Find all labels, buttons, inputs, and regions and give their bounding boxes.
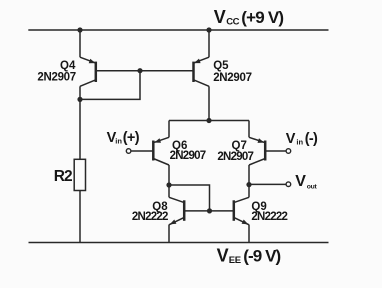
svg-text:2N2907: 2N2907 — [213, 72, 251, 84]
wire Q8 base to Q9 base — [184, 210, 234, 212]
svg-text:in: in — [296, 137, 303, 146]
wire Q5 emitter to VCC — [208, 30, 210, 57]
label Vout — [295, 173, 317, 190]
wire Q5 collector down — [208, 86, 210, 120]
svg-text:(-): (-) — [305, 131, 318, 147]
svg-text:(-9 V): (-9 V) — [243, 247, 280, 266]
node Q7/Q9 collector junction — [246, 182, 251, 187]
resistor R2 — [74, 159, 85, 190]
wire Q4 base to Q5 base — [96, 70, 194, 72]
wire Q7 collector down — [248, 165, 250, 197]
svg-text:CC: CC — [226, 17, 239, 28]
node Q6/Q8 collector junction — [166, 182, 171, 187]
wire tail current rail to Q6 and Q7 emitters — [169, 120, 249, 122]
svg-text:2N2222: 2N2222 — [251, 211, 287, 223]
transistor Q4 (PNP 2N2907) — [80, 57, 96, 86]
svg-text:EE: EE — [229, 255, 241, 266]
terminal Vin- open circle — [286, 149, 291, 154]
label VCC (+9 V) — [214, 7, 284, 28]
wire Q9 emitter to VEE rail — [248, 225, 250, 243]
transistor Q6 (PNP 2N2907) — [153, 137, 169, 165]
svg-text:out: out — [307, 183, 318, 190]
wire R2 to VEE rail — [79, 191, 81, 243]
svg-text:R2: R2 — [54, 168, 72, 185]
svg-text:V: V — [286, 131, 296, 147]
wire Q4 collector down to R2 — [79, 86, 81, 159]
wire VCC top rail — [28, 29, 328, 31]
svg-text:2N2907: 2N2907 — [37, 72, 75, 84]
wire Vin+ terminal to Q6 base — [131, 150, 153, 152]
wire Q7 base to Vin- terminal — [265, 150, 286, 152]
svg-text:Q4: Q4 — [60, 60, 76, 72]
svg-text:2N2907: 2N2907 — [170, 150, 206, 162]
label VEE (-9 V) — [217, 246, 281, 266]
svg-text:(+): (+) — [123, 130, 140, 146]
transistor Q7 (PNP 2N2907) — [249, 137, 265, 165]
wire Q4 collector-base diode connection — [80, 71, 140, 100]
node VCC junction at Q5 emitter — [206, 27, 211, 32]
wire Vout from Q9 collector — [249, 183, 286, 185]
transistor Q8 (NPN 2N2222) — [169, 197, 184, 224]
terminal Vout open circle — [286, 182, 291, 187]
wire Q6 emitter stub — [168, 121, 170, 138]
transistor Q9 (NPN 2N2222) — [234, 197, 249, 224]
svg-text:V: V — [217, 246, 229, 266]
wire VEE bottom rail — [29, 242, 329, 244]
node Q8/Q9 base junction — [207, 208, 212, 213]
label Vin (+) — [107, 130, 140, 146]
wire Q7 emitter stub — [248, 121, 250, 138]
node VCC junction at Q4 emitter — [77, 27, 82, 32]
terminal Vin+ open circle — [126, 149, 131, 154]
node Q5 collector junction — [206, 118, 211, 123]
svg-text:V: V — [214, 7, 226, 27]
svg-text:in: in — [115, 137, 122, 146]
svg-text:Q5: Q5 — [213, 60, 229, 72]
wire Q8 emitter to VEE rail — [168, 225, 170, 243]
transistor Q5 (PNP 2N2907) — [194, 57, 210, 86]
svg-text:(+9 V): (+9 V) — [241, 8, 283, 27]
svg-text:2N2907: 2N2907 — [217, 151, 253, 163]
label Vin (-) — [286, 131, 318, 147]
node Q4 collector junction — [77, 97, 82, 102]
node base junction dot — [137, 68, 142, 73]
wire Q8 diode connection collector to base — [169, 185, 210, 211]
svg-text:V: V — [295, 173, 306, 190]
wire Q4 emitter to VCC — [79, 30, 81, 57]
svg-text:2N2222: 2N2222 — [132, 211, 168, 223]
wire Q6 collector down — [168, 165, 170, 197]
